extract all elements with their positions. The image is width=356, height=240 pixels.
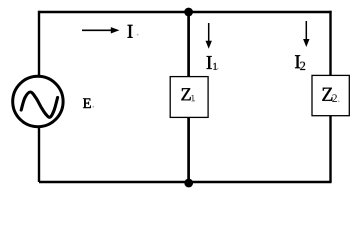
wire top	[39, 11, 332, 13]
wire branch Z1 lower	[187, 117, 190, 184]
AC source E	[13, 76, 63, 126]
node bottom junction	[184, 179, 193, 188]
impedance Z1	[170, 77, 208, 118]
label E	[83, 98, 94, 108]
wire left upper	[38, 11, 40, 77]
wire branch Z1 upper	[187, 12, 190, 78]
arrow I2	[303, 21, 309, 47]
label I2	[295, 55, 305, 70]
wire bottom	[39, 181, 332, 183]
impedance Z2	[312, 75, 349, 115]
label I1	[207, 56, 219, 70]
wire right lower	[329, 116, 331, 183]
arrow I1	[206, 23, 212, 49]
wire left lower	[38, 127, 40, 182]
arrow I	[82, 27, 119, 33]
label I	[128, 25, 139, 38]
node top junction	[184, 8, 193, 17]
wire right upper	[329, 11, 331, 77]
